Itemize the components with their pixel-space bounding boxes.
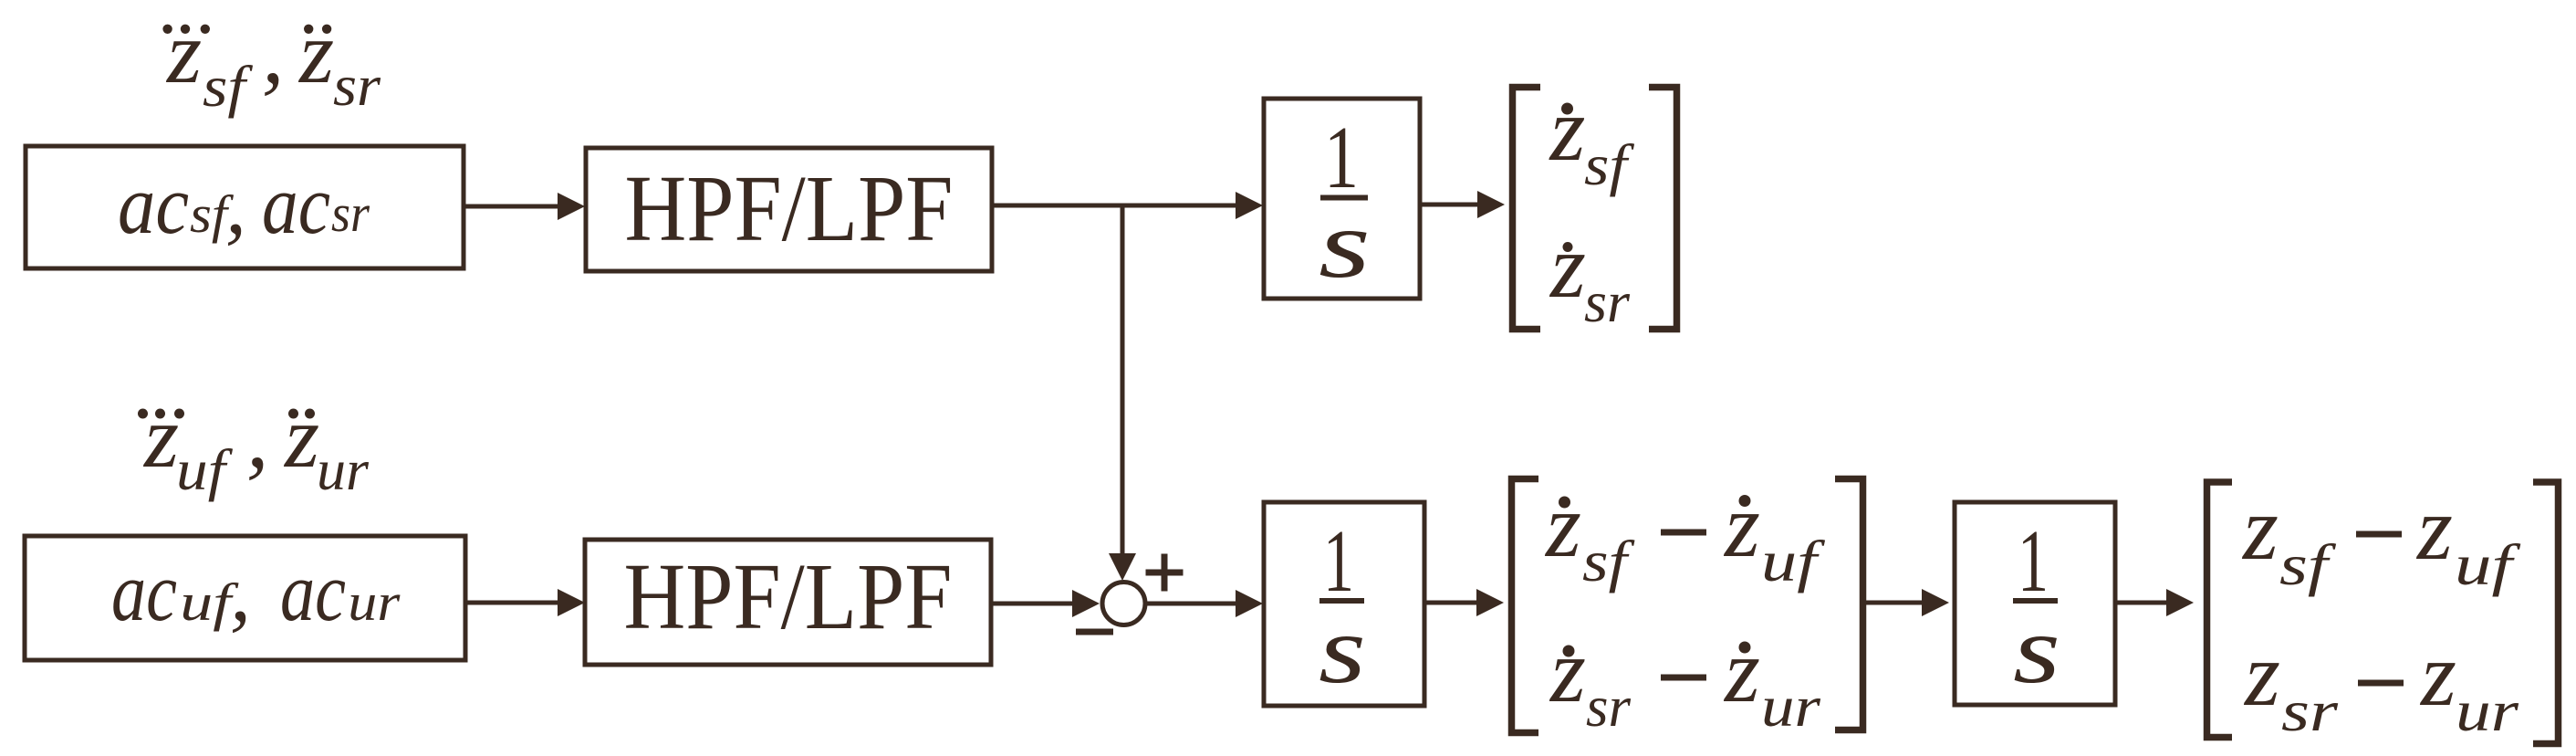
svg-text:ur: ur [2456, 678, 2519, 743]
wire matrix2 to 1/s right [1866, 601, 1925, 605]
svg-text:ur: ur [1761, 674, 1821, 739]
dot over z_sr matrix1 row2 [1563, 242, 1573, 252]
wire HPF top to 1/s [992, 204, 1239, 208]
svg-text:z: z [142, 388, 179, 487]
matrix1 right bracket [1649, 88, 1677, 330]
svg-text:z: z [2243, 624, 2280, 725]
dot over z_sf matrix1 row1 [1561, 103, 1573, 115]
HPF/LPF box bottom [585, 540, 991, 665]
svg-text:s: s [1319, 596, 1366, 703]
svg-text:uf: uf [2455, 532, 2521, 597]
wire 1/s right to matrix3 [2115, 601, 2170, 605]
svg-text:z: z [165, 4, 202, 102]
HPF/LPF box top [586, 148, 992, 271]
svg-text:ac: ac [118, 158, 189, 251]
integrator box 1/s top [1264, 99, 1420, 299]
double dots over z_ur label [288, 409, 298, 419]
minus sign at summing junction [1076, 629, 1113, 635]
svg-text:ur: ur [348, 572, 400, 632]
svg-text:z: z [1723, 475, 1760, 576]
integrator box 1/s middle [1264, 502, 1424, 706]
svg-text:uf: uf [176, 437, 234, 502]
summing junction circle [1102, 583, 1145, 625]
arrowhead into HPF bottom [558, 589, 585, 616]
matrix3 right bracket [2533, 482, 2559, 744]
svg-text:z: z [297, 4, 334, 102]
triple dots over z_sf label [162, 25, 172, 34]
arrowhead into HPF top [558, 193, 585, 220]
minus in matrix2 row2 [1661, 675, 1706, 681]
wire 1/s middle to matrix2 [1424, 601, 1480, 605]
fraction bar 1/s top [1320, 195, 1368, 201]
svg-text:z: z [1723, 620, 1760, 721]
svg-text:z: z [1544, 475, 1581, 576]
wire summing junction to 1/s middle [1146, 602, 1239, 606]
svg-text:,: , [225, 158, 246, 251]
svg-text:,: , [230, 545, 251, 638]
dot over z_ur matrix2 row2 [1739, 642, 1751, 654]
svg-text:ac: ac [111, 545, 177, 638]
input box ac_sf,ac_sr [26, 146, 464, 268]
svg-text:z: z [283, 388, 319, 487]
wire box2 to HPF bottom [465, 601, 562, 605]
svg-text:z: z [2241, 478, 2279, 579]
arrowhead into matrix1 [1477, 191, 1505, 218]
arrowhead into 1/s middle [1236, 590, 1263, 617]
wire 1/s top to matrix1 [1420, 203, 1480, 207]
minus in matrix3 row2 [2358, 680, 2404, 687]
svg-text:s: s [1319, 191, 1371, 298]
minus in matrix2 row1 [1661, 530, 1706, 536]
dot over z_uf matrix2 row1 [1739, 495, 1751, 507]
matrix1 left bracket [1513, 88, 1541, 330]
svg-text:ac: ac [280, 545, 346, 638]
input box ac_uf,ac_ur [25, 536, 465, 660]
arrowhead into matrix3 [2166, 589, 2194, 616]
svg-text:z: z [1549, 215, 1586, 317]
svg-text:z: z [2419, 624, 2456, 725]
svg-text:s: s [2013, 596, 2060, 703]
wire box1 to HPF top [464, 205, 562, 209]
arrowhead down into summing junction [1109, 553, 1136, 581]
svg-text:sr: sr [1586, 674, 1632, 739]
svg-text:sr: sr [333, 53, 381, 118]
arrowhead into 1/s right [1922, 589, 1949, 616]
svg-text:z: z [1549, 79, 1586, 180]
triple dots over z_uf label [138, 409, 148, 419]
arrowhead into summing junction left [1072, 590, 1100, 617]
svg-text:sr: sr [2281, 678, 2339, 743]
svg-text:HPF/LPF: HPF/LPF [625, 156, 954, 261]
plus sign at summing junction [1146, 570, 1184, 576]
matrix2 left bracket [1512, 479, 1539, 733]
dot over z_sf matrix2 row1 [1559, 497, 1570, 509]
double dots over z_sr label [304, 25, 313, 34]
fraction bar 1/s right [2013, 598, 2058, 604]
svg-text:ac: ac [262, 158, 330, 251]
arrowhead into matrix2 [1476, 589, 1504, 616]
svg-text:z: z [2415, 478, 2453, 579]
arrowhead into 1/s top [1236, 192, 1263, 219]
svg-text:uf: uf [1761, 529, 1826, 593]
svg-text:sr: sr [1584, 269, 1631, 334]
svg-text:z: z [1549, 620, 1586, 721]
fraction bar 1/s middle [1319, 598, 1364, 604]
wire branch vertical to summing junction [1121, 205, 1125, 553]
svg-text:,: , [262, 4, 285, 102]
wire HPF bottom to summing junction [991, 602, 1075, 606]
svg-text:sr: sr [331, 184, 370, 243]
minus in matrix3 row1 [2356, 531, 2402, 538]
matrix2 right bracket [1835, 479, 1863, 730]
dot over z_sr matrix2 row2 [1563, 646, 1575, 657]
matrix3 left bracket [2207, 482, 2233, 738]
integrator box 1/s right [1955, 502, 2115, 705]
svg-text:,: , [246, 388, 269, 487]
svg-text:HPF/LPF: HPF/LPF [624, 544, 953, 649]
svg-text:ur: ur [317, 437, 370, 502]
